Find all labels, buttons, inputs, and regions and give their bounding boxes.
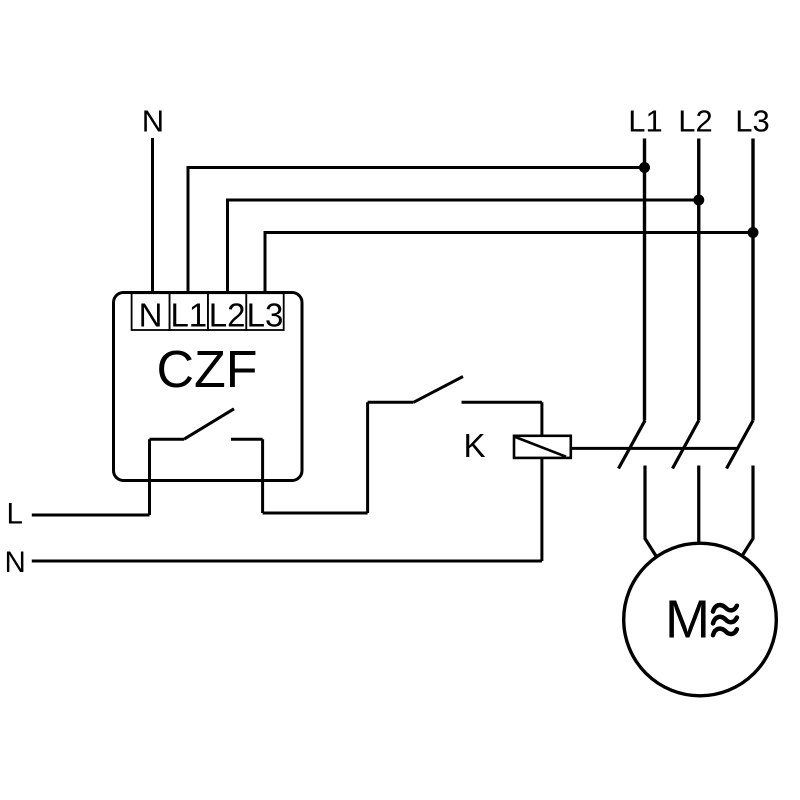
wire L3 tap to terminal L3 xyxy=(265,233,753,294)
junction dot on L1 xyxy=(639,162,650,173)
control switch (start contact) xyxy=(368,377,542,514)
wire N return xyxy=(32,560,542,563)
terminal block L2 (pin) xyxy=(208,293,246,330)
actuation link from coil K to contacts xyxy=(571,447,737,450)
wire contact K3 to motor xyxy=(742,466,753,557)
contactor contact K3 blade (L3) xyxy=(727,421,754,469)
wire L1 phase vertical xyxy=(643,139,646,421)
terminal block L3 (pin) xyxy=(246,293,283,330)
svg-text:K: K xyxy=(463,427,485,464)
coil K (contactor coil) xyxy=(514,436,571,458)
junction dot on L3 xyxy=(748,227,759,238)
wire L2 tap to terminal L2 xyxy=(228,200,699,293)
motor M (3-phase motor circle) xyxy=(624,543,777,696)
svg-text:N: N xyxy=(5,546,26,579)
wire relay contact to control switch xyxy=(263,512,368,515)
wire N drop to terminal N xyxy=(151,138,154,293)
svg-text:L1: L1 xyxy=(628,104,662,139)
svg-text:L1: L1 xyxy=(170,297,207,334)
svg-text:L2: L2 xyxy=(209,297,246,334)
junction dot on L2 xyxy=(693,195,704,206)
svg-text:L3: L3 xyxy=(247,297,284,334)
svg-text:N: N xyxy=(142,104,164,139)
terminal block N (pin) xyxy=(132,293,170,330)
svg-text:L3: L3 xyxy=(735,104,769,139)
svg-text:L: L xyxy=(7,498,23,531)
contactor contact K1 blade (L1) xyxy=(619,421,646,469)
contactor contact K2 blade (L2) xyxy=(673,421,699,469)
svg-text:CZF: CZF xyxy=(156,341,257,399)
wire L to relay contact xyxy=(32,514,150,517)
svg-text:N: N xyxy=(139,297,163,334)
terminal block L1 (pin) xyxy=(170,293,208,330)
wire L2 phase vertical xyxy=(697,139,700,421)
wire coil K bottom to N return xyxy=(540,458,543,561)
relay module CZF (enclosure) xyxy=(114,293,303,481)
wire L1 tap to terminal L1 xyxy=(188,168,645,294)
motor AC waves (triple tilde) xyxy=(713,605,737,635)
svg-text:L2: L2 xyxy=(678,104,712,139)
wire contact K2 to motor xyxy=(697,466,700,547)
relay output contact of CZF (switch) xyxy=(150,409,263,515)
wire L3 phase vertical xyxy=(751,139,754,421)
svg-text:M: M xyxy=(665,590,710,650)
wire contact K1 to motor xyxy=(645,466,656,557)
